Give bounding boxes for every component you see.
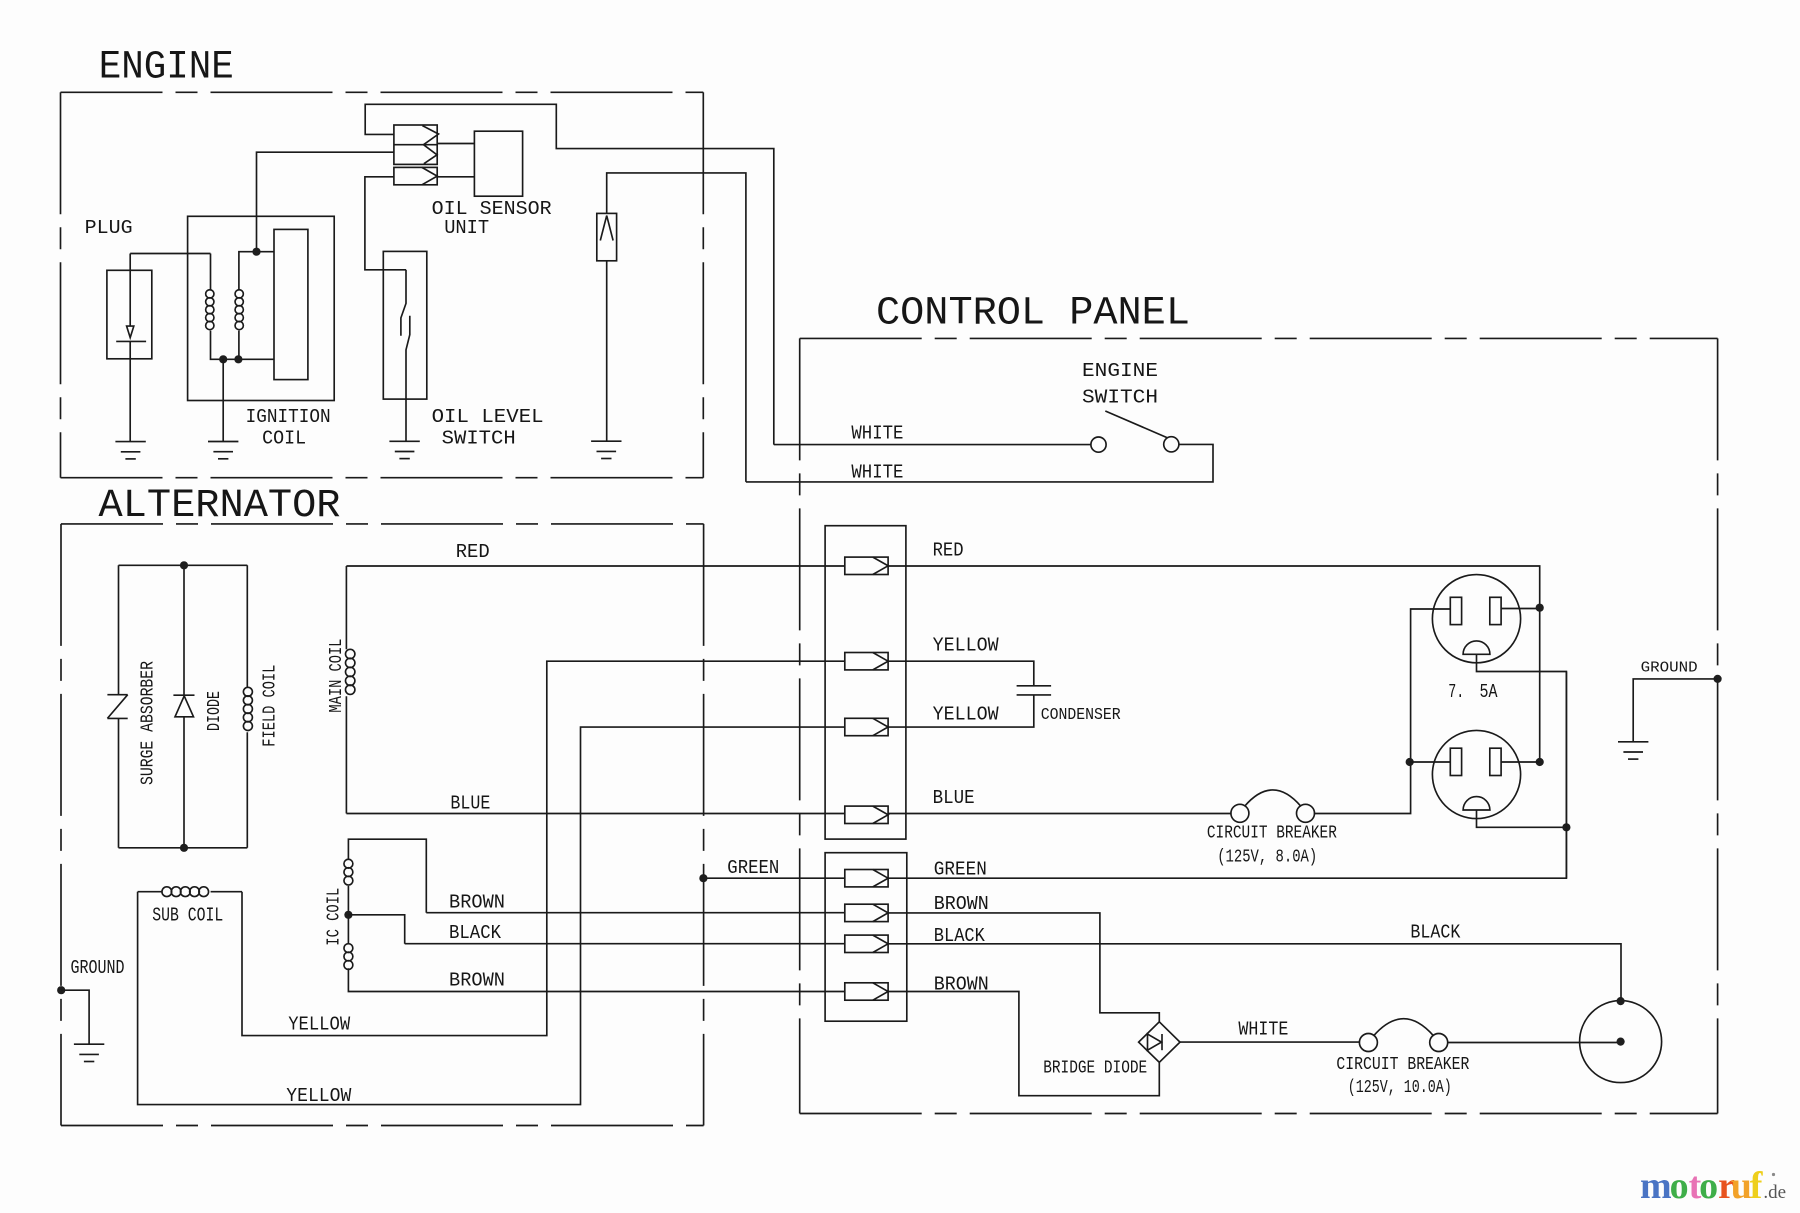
- wire YELLOW: sub coil right to connector: [242, 661, 845, 1035]
- wire white to engine switch: [774, 444, 1091, 446]
- wire: engine switch return (white): [746, 444, 1213, 482]
- wire: receptacle 2 ground slot to green: [1477, 810, 1567, 827]
- main coil winding: [346, 649, 355, 694]
- svg-text:RED: RED: [456, 541, 490, 563]
- node ignition coil secondary junction: [234, 355, 242, 363]
- ic coil middle wire: [347, 886, 349, 944]
- node red junction: [1536, 604, 1544, 612]
- svg-text:UNIT: UNIT: [444, 217, 489, 239]
- ALTERNATOR dashed box: [61, 523, 704, 525]
- ignition coil core: [274, 229, 308, 379]
- dc receptacle outline: [1580, 1001, 1662, 1083]
- svg-text:YELLOW: YELLOW: [286, 1085, 352, 1107]
- wire BLACK: ic coil tap to connector: [405, 943, 845, 945]
- condenser: [1017, 686, 1052, 695]
- circuit breaker 2 left terminal: [1359, 1034, 1377, 1052]
- ignition coil secondary winding wires: [239, 252, 274, 360]
- node ic coil center tap: [344, 911, 352, 919]
- svg-text:MAIN COIL: MAIN COIL: [327, 639, 347, 713]
- svg-text:m: m: [1640, 1165, 1672, 1207]
- wire: ignition coil to plug: [130, 253, 210, 255]
- svg-text:PLUG: PLUG: [85, 217, 133, 239]
- ground (plug ground): [115, 442, 145, 459]
- AC receptacle 1 right slot: [1490, 597, 1501, 624]
- ignition coil primary winding wires: [211, 254, 275, 360]
- CONTROL PANEL dashed box: [800, 337, 1718, 339]
- wire stubs inside connector blocks: [888, 566, 907, 992]
- svg-text:GREEN: GREEN: [727, 857, 779, 879]
- wire: engine terminal to ground: [606, 261, 608, 441]
- connector terminal YELLOW terminal 1: [845, 653, 888, 670]
- connector terminal oil sensor pin 2: [424, 145, 438, 164]
- svg-text:BROWN: BROWN: [934, 973, 989, 995]
- wire BROWN lower: ic coil to connector: [348, 968, 844, 991]
- node ignition coil top junction: [252, 248, 260, 256]
- ground (ignition coil ground): [208, 442, 238, 459]
- circuit breaker 1 arc: [1245, 790, 1302, 806]
- oil level switch box: [383, 251, 427, 399]
- label FIELD COIL (vertical): [261, 665, 281, 747]
- svg-text:o: o: [1699, 1165, 1718, 1207]
- svg-text:BROWN: BROWN: [934, 893, 989, 915]
- logo trademark dot: [1772, 1173, 1775, 1176]
- label MAIN COIL (vertical): [327, 639, 347, 713]
- ground (oil level switch ground): [389, 441, 419, 458]
- ignition coil primary winding: [206, 290, 214, 330]
- node red to receptacle 2: [1536, 758, 1544, 766]
- connector terminal BROWN terminal 2: [845, 983, 888, 1000]
- svg-text:WHITE: WHITE: [1238, 1019, 1288, 1041]
- svg-text:WHITE: WHITE: [851, 462, 903, 484]
- sub coil wires: [138, 891, 242, 893]
- svg-text:.de: .de: [1763, 1182, 1786, 1203]
- node panel ground tap: [1714, 675, 1722, 683]
- wire: engine terminal to control panel (white): [607, 173, 746, 482]
- field-circuit rectangle: [119, 565, 248, 848]
- svg-text:BLACK: BLACK: [449, 922, 502, 944]
- oil sensor unit box: [474, 131, 522, 196]
- svg-text:5A: 5A: [1480, 681, 1498, 703]
- spark plug body: [107, 270, 152, 359]
- ENGINE dashed box: [61, 91, 704, 93]
- svg-text:f: f: [1750, 1165, 1764, 1207]
- node field circuit bottom junction: [180, 844, 188, 852]
- wire BROWN upper: ic coil to connector: [426, 912, 845, 914]
- svg-text:CIRCUIT BREAKER: CIRCUIT BREAKER: [1207, 823, 1337, 843]
- label IC COIL (vertical): [325, 888, 345, 946]
- engine switch left contact: [1091, 437, 1106, 452]
- label SURGE ABSORBER (vertical): [139, 661, 159, 785]
- engine switch right contact: [1164, 437, 1179, 452]
- wire BLUE: main coil to connector: [346, 813, 844, 815]
- wire BROWN 1: connector to bridge diode: [907, 913, 1160, 1022]
- label DIODE (vertical): [205, 691, 225, 731]
- connector terminal oil sensor pin 3: [394, 167, 437, 184]
- wire RED: main coil to connector: [346, 565, 844, 567]
- svg-text:OIL LEVEL: OIL LEVEL: [432, 406, 544, 428]
- circuit breaker 1 right terminal: [1297, 804, 1315, 822]
- svg-text:COIL: COIL: [262, 427, 306, 449]
- wire: receptacle 1 right slot to red: [1501, 608, 1540, 610]
- svg-text:ALTERNATOR: ALTERNATOR: [99, 484, 341, 529]
- divider between pin1/pin2 shells: [394, 144, 437, 146]
- connector terminal GREEN terminal: [845, 870, 888, 887]
- connector terminal BLUE terminal: [845, 806, 888, 823]
- AC receptacle 2 left slot: [1450, 748, 1461, 775]
- node field circuit top junction: [180, 561, 188, 569]
- svg-text:BRIDGE DIODE: BRIDGE DIODE: [1043, 1058, 1147, 1078]
- wire: green riser: [1565, 672, 1567, 879]
- main coil wires: [345, 566, 347, 814]
- wire WHITE: bridge to breaker 2: [1180, 1041, 1360, 1043]
- connector block lower shell: [825, 853, 907, 1022]
- connector terminal oil sensor pin 1: [394, 125, 439, 164]
- circuit breaker 1 left terminal: [1231, 804, 1249, 822]
- svg-text:o: o: [1670, 1165, 1689, 1207]
- wire GREEN: connector to receptacle grounds: [907, 654, 1567, 878]
- svg-text:BROWN: BROWN: [449, 891, 505, 913]
- engine switch blade: [1105, 411, 1167, 438]
- svg-text:GREEN: GREEN: [934, 859, 987, 881]
- svg-text:ENGINE: ENGINE: [1082, 360, 1158, 382]
- wire YELLOW 1 to condenser: [906, 661, 1034, 686]
- ic coil upper winding: [344, 859, 353, 885]
- spark plug electrode: [129, 254, 131, 327]
- circuit breaker 2 arc: [1374, 1019, 1434, 1036]
- svg-text:(125V, 8.0A): (125V, 8.0A): [1217, 847, 1317, 867]
- connector terminal BROWN terminal 1: [845, 904, 888, 921]
- sub coil winding: [162, 887, 209, 897]
- svg-text:CIRCUIT BREAKER: CIRCUIT BREAKER: [1336, 1055, 1469, 1075]
- wire YELLOW: sub coil left to connector: [138, 727, 845, 1105]
- oil level switch contact: [401, 270, 406, 336]
- ground (panel ground): [1618, 742, 1648, 759]
- node blue junction: [1406, 758, 1414, 766]
- svg-text:YELLOW: YELLOW: [933, 635, 1000, 657]
- surge absorber symbol: [107, 695, 127, 719]
- wire: plug to ground: [129, 341, 131, 441]
- node alternator ground tap: [57, 986, 65, 994]
- node dc receptacle top pin: [1617, 997, 1625, 1005]
- AC receptacle 2 right slot: [1490, 748, 1501, 775]
- svg-text:SWITCH: SWITCH: [442, 427, 516, 449]
- AC receptacle 2 ground slot: [1463, 797, 1490, 810]
- svg-text:WHITE: WHITE: [851, 423, 903, 445]
- connector terminal YELLOW terminal 2: [845, 718, 888, 735]
- engine terminal connector (vertical): [597, 213, 617, 260]
- svg-text:BLUE: BLUE: [450, 792, 490, 814]
- wire: ignition coil to ground: [222, 359, 224, 441]
- svg-text:7.: 7.: [1448, 681, 1464, 703]
- AC receptacle 1 outline: [1432, 575, 1520, 663]
- wire GREEN: frame to connector: [703, 877, 844, 879]
- diode symbol: [173, 694, 194, 696]
- AC receptacle 1 left slot: [1450, 597, 1461, 624]
- wire: panel ground: [1633, 679, 1717, 742]
- wire: receptacle 2 right slot: [1501, 761, 1540, 763]
- wire BROWN 2: connector to bridge diode: [907, 992, 1160, 1096]
- ic coil lower winding: [344, 944, 353, 970]
- svg-text:RED: RED: [933, 539, 964, 561]
- wire WHITE: breaker 2 to dc receptacle: [1447, 1042, 1621, 1044]
- wire RED: connector to receptacle: [906, 566, 1540, 762]
- svg-text:CONDENSER: CONDENSER: [1041, 706, 1121, 725]
- wire YELLOW 2 to condenser: [906, 695, 1034, 727]
- svg-text:u: u: [1731, 1165, 1752, 1207]
- ground (engine terminal ground): [591, 441, 621, 458]
- wire BLACK: connector to dc receptacle: [907, 944, 1621, 1001]
- svg-text:GROUND: GROUND: [71, 957, 125, 979]
- wire: oil sensor pin1 to engine switch (white): [365, 104, 774, 444]
- field coil winding: [243, 687, 252, 730]
- svg-text:GROUND: GROUND: [1641, 659, 1698, 676]
- svg-text:BLACK: BLACK: [934, 925, 986, 947]
- svg-text:(125V, 10.0A): (125V, 10.0A): [1348, 1078, 1452, 1098]
- ignition coil outer box: [188, 216, 335, 400]
- svg-text:FIELD COIL: FIELD COIL: [261, 665, 281, 747]
- node dc receptacle center pin: [1617, 1038, 1625, 1046]
- wire: alternator ground: [61, 990, 89, 1044]
- wire: oil sensor pin3 to oil level switch: [365, 177, 406, 270]
- connector terminal RED terminal: [845, 557, 888, 574]
- AC receptacle 2 outline: [1432, 730, 1520, 818]
- svg-text:YELLOW: YELLOW: [288, 1014, 351, 1036]
- connector block upper shell: [825, 526, 906, 839]
- svg-text:SURGE ABSORBER: SURGE ABSORBER: [139, 661, 159, 785]
- wire: receptacle 2 left slot: [1410, 761, 1451, 763]
- bridge diode symbol: [1148, 1034, 1162, 1050]
- ground (alternator ground): [74, 1044, 104, 1061]
- svg-text:CONTROL PANEL: CONTROL PANEL: [876, 292, 1190, 337]
- wire BLUE: breaker to receptacles: [1314, 609, 1451, 814]
- svg-text:BLUE: BLUE: [933, 787, 975, 809]
- svg-text:YELLOW: YELLOW: [933, 704, 1000, 726]
- svg-text:SUB COIL: SUB COIL: [152, 905, 223, 927]
- svg-text:BLACK: BLACK: [1410, 921, 1461, 943]
- svg-text:IGNITION: IGNITION: [246, 406, 331, 428]
- ignition coil secondary winding: [235, 290, 243, 330]
- svg-text:BROWN: BROWN: [449, 970, 505, 992]
- svg-text:IC COIL: IC COIL: [325, 888, 345, 946]
- diode branch wire: [183, 565, 185, 848]
- motoruf.de logo: [1640, 1165, 1786, 1207]
- svg-text:DIODE: DIODE: [205, 691, 225, 731]
- circuit breaker 2 right terminal: [1430, 1034, 1448, 1052]
- node green junction: [1562, 823, 1570, 831]
- node ignition coil ground junction: [219, 355, 227, 363]
- bridge diode outline: [1139, 1022, 1180, 1063]
- AC receptacle 1 ground slot: [1463, 641, 1490, 654]
- wire: ic coil center tap to black: [348, 915, 404, 944]
- svg-text:ENGINE: ENGINE: [99, 46, 234, 91]
- wire BLUE: connector to circuit breaker: [906, 813, 1232, 815]
- wire: pins to oil sensor unit: [437, 144, 474, 177]
- wire: ignition coil node to oil sensor pin2: [257, 152, 394, 252]
- svg-text:SWITCH: SWITCH: [1082, 387, 1158, 409]
- ic coil top lead: [348, 839, 426, 913]
- connector terminal BLACK terminal: [845, 935, 888, 952]
- node green wire tap: [699, 874, 707, 882]
